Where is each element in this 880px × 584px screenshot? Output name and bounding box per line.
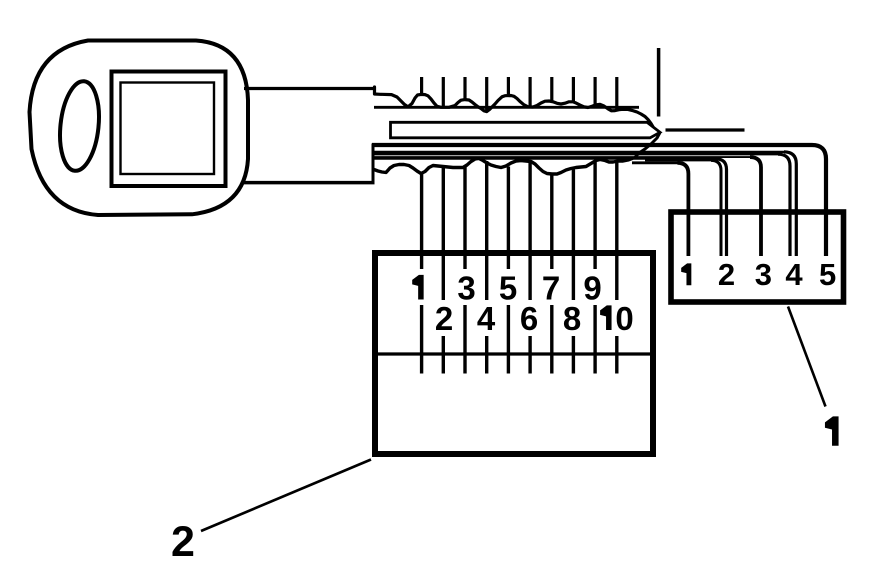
halo + number 10 (bottom box) — [601, 300, 637, 336]
svg-text:2: 2 — [718, 257, 735, 292]
shaft top line — [244, 87, 375, 90]
svg-text:5: 5 — [819, 257, 836, 292]
svg-text:5: 5 — [499, 270, 517, 307]
halo + number 2 (bottom box) — [433, 300, 456, 336]
top measure line 10 — [615, 77, 618, 110]
top measure line 9 — [593, 77, 596, 107]
bottom measure line 1 — [420, 172, 423, 374]
key head emblem inner square — [121, 83, 215, 175]
blade bottom cut edge (wavy) — [374, 159, 632, 175]
leader line to label 2 — [201, 460, 371, 532]
bottom measure line 2 — [442, 166, 445, 374]
svg-text:2: 2 — [435, 300, 453, 337]
bottom measure line 6 — [528, 161, 531, 374]
bottom code box divider line — [378, 352, 650, 355]
side track 1 (to pin 1) — [632, 161, 678, 164]
side track 5 (to pin 5) — [372, 145, 826, 256]
right pin box (item 1) — [671, 212, 844, 302]
blade tip lower diagonal edge — [634, 133, 660, 159]
svg-text:3: 3 — [755, 257, 772, 292]
top measure line 2 — [442, 77, 445, 107]
tip reference horizontal line — [666, 128, 745, 131]
bottom measure line 7 — [550, 173, 553, 374]
side track 3 (to pin 3) — [372, 156, 751, 158]
svg-text:9: 9 — [583, 270, 601, 307]
svg-text:3: 3 — [457, 270, 475, 307]
blade top cut edge (wavy) — [375, 87, 654, 127]
bottom measure line 10 — [615, 162, 618, 374]
svg-text:7: 7 — [542, 270, 560, 307]
blade top surface baseline — [374, 106, 639, 109]
key head hole (oval) — [56, 79, 103, 172]
halo + number 9 (bottom box) — [581, 269, 604, 305]
side track 2 right line (to pin 2) — [372, 158, 717, 160]
top measure line 3 — [463, 77, 466, 100]
svg-text:4: 4 — [785, 257, 803, 292]
side track 4 left line (to pin 4) — [372, 153, 780, 155]
top measure line 4 — [485, 77, 488, 112]
top measure line 7 — [550, 77, 553, 102]
key head outline — [30, 41, 249, 216]
label 1 — [825, 416, 839, 445]
bottom measure line 3 — [463, 167, 466, 374]
side track 4 right line (to pin 4) — [372, 151, 786, 153]
top measure line 8 — [572, 77, 575, 102]
top measure line 1 — [420, 77, 423, 95]
halo + number 6 (bottom box) — [518, 300, 541, 336]
svg-text:8: 8 — [563, 300, 581, 337]
number 1 (right box) — [681, 263, 691, 285]
bottom measure line 9 — [593, 162, 596, 374]
halo + number 5 (bottom box) — [497, 269, 520, 305]
top measure line 5 — [507, 77, 510, 96]
shaft bottom line — [244, 181, 375, 185]
halo + number 7 (bottom box) — [540, 269, 563, 305]
halo + number 3 (bottom box) — [455, 269, 478, 305]
bottom code box (item 2) — [375, 253, 653, 454]
svg-text:0: 0 — [615, 300, 633, 337]
key head emblem outer square — [112, 72, 226, 187]
svg-text:6: 6 — [520, 300, 538, 337]
leader line to label 1 — [788, 307, 826, 407]
bottom measure line 8 — [572, 170, 575, 374]
halo + number 8 (bottom box) — [561, 300, 584, 336]
bottom measure line 5 — [507, 167, 510, 374]
halo + number 1 (bottom box) — [407, 269, 430, 305]
side track 2 left line (to pin 2) — [645, 159, 712, 161]
svg-text:4: 4 — [477, 300, 496, 337]
bottom measure line 4 — [485, 161, 488, 374]
blade left bottom step (vertical) — [372, 144, 375, 184]
halo + number 4 (bottom box) — [475, 300, 498, 336]
top measure line 6 — [528, 77, 531, 106]
svg-text:2: 2 — [171, 518, 195, 566]
blade center groove bar — [391, 122, 661, 138]
tip reference vertical line — [657, 48, 661, 117]
